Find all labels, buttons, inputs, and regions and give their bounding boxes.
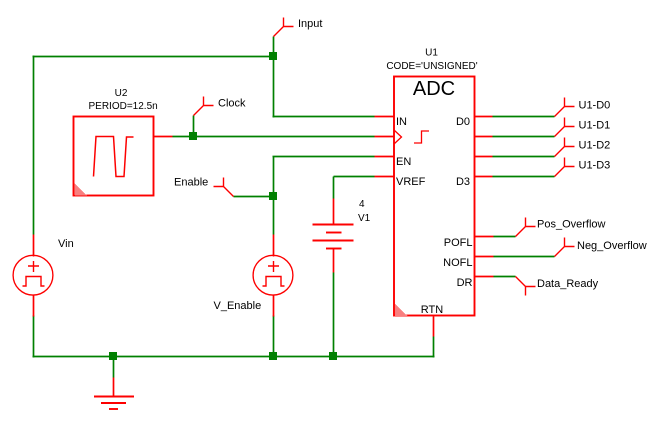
svg-text:Enable: Enable — [174, 177, 208, 189]
svg-text:NOFL: NOFL — [443, 257, 472, 269]
svg-text:U1-D1: U1-D1 — [579, 120, 611, 132]
tag Data_Ready — [516, 277, 536, 296]
pin V_Enable top — [273, 235, 275, 257]
ground lead — [113, 378, 115, 397]
node Clock junction — [189, 132, 197, 140]
wire NOFL — [494, 256, 555, 258]
pin U1 CLK — [375, 136, 395, 138]
svg-text:RTN: RTN — [421, 304, 443, 316]
svg-text:Pos_Overflow: Pos_Overflow — [537, 219, 606, 231]
wire VREF horizontal — [334, 176, 375, 178]
U2 waveform glyph — [94, 137, 134, 177]
pin U1 EN — [375, 156, 395, 158]
node Input junction — [269, 52, 277, 60]
Vin plus sign — [28, 261, 39, 272]
svg-text:EN: EN — [396, 156, 411, 168]
wire EN horizontal — [273, 156, 375, 158]
svg-text:D3: D3 — [456, 176, 470, 188]
svg-text:U1-D0: U1-D0 — [579, 100, 611, 112]
tag Pos_Overflow — [516, 218, 536, 237]
svg-text:ADC: ADC — [413, 78, 455, 100]
pin U1 D0 — [475, 116, 493, 118]
wire Enable horizontal — [234, 196, 274, 198]
wire bottom horizontal — [33, 356, 435, 358]
tag U1-D3 — [555, 158, 575, 177]
svg-text:Input: Input — [298, 18, 322, 30]
pin U1 D3 — [475, 176, 493, 178]
pin U2 output — [154, 136, 173, 138]
svg-text:DR: DR — [457, 277, 473, 289]
wire V1 bottom vertical — [333, 273, 335, 358]
svg-text:Neg_Overflow: Neg_Overflow — [577, 240, 647, 252]
pin U1 POFL — [475, 236, 494, 238]
pin U1 IN — [375, 116, 395, 118]
svg-text:V1: V1 — [358, 213, 371, 224]
tag Neg_Overflow — [555, 238, 575, 257]
wire VREF vertical — [333, 177, 335, 199]
battery V1 plate short 2 — [326, 248, 342, 250]
wire V_Enable top vertical — [273, 197, 275, 235]
pin V1 top — [333, 199, 335, 225]
svg-text:POFL: POFL — [444, 237, 473, 249]
battery V1 plate long bottom — [313, 240, 354, 242]
wire V_Enable bottom vertical — [273, 316, 275, 358]
pin U1 D1 — [475, 136, 493, 138]
svg-text:U1-D2: U1-D2 — [579, 140, 611, 152]
pin U1 VREF — [375, 176, 395, 178]
U1 clock chevron — [394, 130, 402, 144]
svg-text:Vin: Vin — [58, 238, 74, 250]
pin U1 D2 — [475, 156, 493, 158]
svg-text:IN: IN — [396, 116, 407, 128]
pin V1 bottom — [333, 249, 335, 273]
U2 corner hatch — [75, 183, 88, 196]
wire left vertical lower — [33, 316, 35, 358]
ground bar 3 — [109, 408, 118, 410]
battery V1 plate short 1 — [326, 232, 342, 234]
Vin pulse glyph — [23, 277, 45, 287]
tag Clock — [194, 97, 214, 116]
node Enable junction — [269, 192, 277, 200]
ADC U1 box — [394, 77, 475, 316]
wire IN vertical — [273, 57, 275, 118]
ground bar 1 — [94, 396, 134, 398]
wire POFL — [494, 236, 516, 238]
svg-text:V_Enable: V_Enable — [214, 300, 262, 312]
wire left vertical upper — [33, 56, 35, 235]
pin Vin bottom — [33, 295, 35, 317]
U1 corner hatch — [395, 304, 408, 317]
tag U1-D2 — [555, 138, 575, 157]
node ground junction — [109, 352, 117, 360]
U1 clock edge glyph — [414, 131, 429, 143]
ground bar 2 — [101, 402, 126, 404]
pin U1 NOFL — [475, 256, 494, 258]
wire DR — [494, 276, 516, 278]
wire D3 — [493, 176, 555, 178]
wire ground stub — [113, 357, 115, 378]
V_Enable plus sign — [268, 261, 279, 272]
pin U1 DR — [475, 276, 494, 278]
svg-text:U1-D3: U1-D3 — [579, 160, 611, 172]
wire D2 — [493, 156, 555, 158]
source V_Enable circle — [253, 255, 293, 295]
wire Clock tag stub — [193, 116, 195, 137]
wire D0 — [493, 116, 555, 118]
svg-text:Data_Ready: Data_Ready — [537, 278, 599, 290]
battery V1 plate long top — [313, 224, 354, 226]
svg-text:CODE='UNSIGNED': CODE='UNSIGNED' — [386, 61, 477, 72]
pin U1 RTN — [433, 317, 435, 337]
svg-text:U1: U1 — [425, 48, 438, 59]
wire EN vertical — [273, 157, 275, 197]
pin Vin top — [33, 235, 35, 257]
svg-text:Clock: Clock — [218, 98, 246, 110]
tag Input — [274, 18, 294, 37]
svg-text:4: 4 — [359, 199, 365, 210]
wire Input tag stub — [273, 37, 275, 57]
source Vin circle — [13, 255, 53, 295]
tag U1-D1 — [555, 118, 575, 137]
svg-text:PERIOD=12.5n: PERIOD=12.5n — [89, 101, 158, 112]
svg-text:VREF: VREF — [396, 176, 426, 188]
wire RTN vertical — [433, 337, 435, 358]
pin V_Enable bottom — [273, 295, 275, 317]
node V1 bottom junction — [329, 352, 337, 360]
wire top horizontal — [33, 56, 275, 58]
svg-text:D0: D0 — [456, 116, 470, 128]
V_Enable pulse glyph — [263, 277, 285, 287]
svg-text:U2: U2 — [115, 88, 128, 99]
wire D1 — [493, 136, 555, 138]
wire IN horizontal — [273, 116, 375, 118]
node V_Enable bottom junction — [269, 352, 277, 360]
tag Enable — [214, 178, 234, 197]
pulse source U2 box — [74, 117, 154, 196]
wire Clock horizontal — [173, 136, 375, 138]
tag U1-D0 — [555, 98, 575, 117]
